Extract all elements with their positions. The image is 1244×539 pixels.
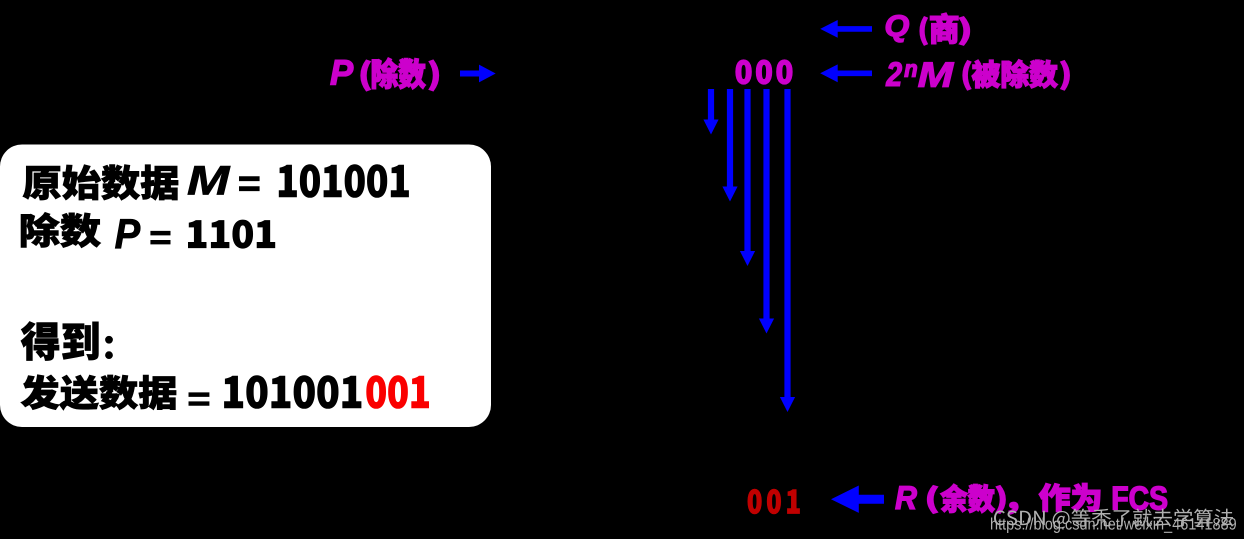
box line2 除数 [21, 212, 101, 247]
label 2nM superscript n [905, 64, 917, 77]
box line2 letter P [115, 219, 140, 248]
label R text 作为 [1039, 483, 1100, 511]
label P (divisor) open paren [361, 60, 370, 91]
box line1 value 101001 [279, 165, 408, 198]
label 2nM digit 2 [886, 62, 902, 86]
remainder bits 001 [748, 489, 799, 514]
label R text 余数 [941, 484, 995, 513]
label P (divisor) close paren [429, 60, 438, 91]
white info box [0, 145, 491, 428]
box line2 equals [151, 231, 170, 244]
box line1 letter M [188, 166, 230, 194]
label 2nM close paren [1061, 61, 1070, 90]
box line2 value 1101 [188, 220, 274, 248]
dividend appended zeros 000 [736, 60, 792, 84]
arrow right toward divisor position [460, 65, 496, 83]
box line4 发送数据 [21, 375, 176, 410]
label R close paren [996, 486, 1005, 514]
division step arrow 1 downward [703, 89, 718, 135]
label Q (quotient) open paren [920, 17, 927, 45]
watermark url [991, 517, 1236, 533]
label R (remainder) letter R [896, 486, 917, 509]
watermark CSDN @等秃了就去学算法 [994, 508, 1233, 528]
label 2nM open paren [963, 61, 971, 90]
box line4 appended 001 red [367, 376, 429, 409]
label Q (quotient) close paren [959, 17, 969, 45]
box line1 equals [239, 177, 259, 191]
label Q (quotient) text 商 [930, 13, 958, 44]
label Q (quotient) letter Q [886, 15, 909, 42]
division step arrow 4 downward [759, 89, 774, 334]
arrow left from Q label [820, 20, 872, 38]
division step arrow 5 downward [780, 89, 795, 412]
division step arrow 3 downward [740, 89, 755, 266]
label P (divisor) letter P [331, 60, 354, 84]
box line3 fullwidth colon [106, 336, 113, 358]
box line4 equals [189, 393, 209, 406]
label R fullwidth comma [1009, 502, 1018, 514]
box line1 原始数据 [23, 165, 178, 200]
box line4 value 101001 [224, 376, 361, 409]
label R text FCS [1113, 486, 1167, 509]
label 2nM text 被除数 [972, 60, 1058, 89]
arrow left from R label [831, 486, 884, 513]
label 2nM letter M [918, 62, 954, 86]
arrow left from 2nM label [820, 64, 872, 82]
division step arrow 2 downward [722, 89, 737, 202]
box line3 得到 [21, 322, 98, 361]
label R open paren [928, 486, 938, 514]
label P (divisor) text 除数 [372, 58, 425, 89]
